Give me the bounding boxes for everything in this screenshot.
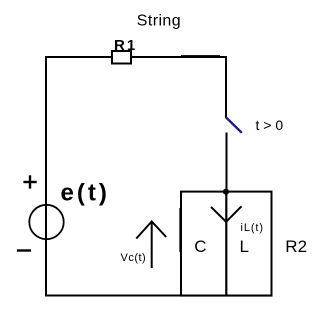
svg-text:C: C (194, 237, 206, 256)
wire top-left horizontal (45, 56, 113, 58)
svg-text:iL(t): iL(t) (241, 222, 264, 234)
resistor R1 (112, 51, 131, 64)
label + (23, 181, 36, 183)
wire overlap segment (thicker run on top wire) (181, 55, 220, 57)
wire switch upper vertical (225, 56, 227, 118)
svg-text:L: L (240, 237, 249, 256)
arrow Vc(t) (151, 222, 153, 268)
svg-text:Vc(t): Vc(t) (121, 252, 147, 264)
arrow iL(t) (211, 206, 242, 222)
wire top-right horizontal (131, 56, 227, 58)
svg-text:e(t): e(t) (61, 180, 110, 207)
switch blade t>0 (226, 117, 242, 133)
wire middle vertical (C|L divider) (225, 192, 227, 296)
box R2 (181, 192, 272, 296)
node junction dot (223, 189, 229, 195)
svg-text:R2: R2 (285, 237, 307, 256)
wire left vertical (45, 56, 47, 296)
svg-text:String: String (137, 13, 181, 30)
wire switch lower vertical (226, 133, 228, 193)
wire overlap segment (thicker run on box left edge) (179, 208, 181, 252)
voltage source e(t) (29, 205, 63, 239)
svg-text:R1: R1 (114, 37, 137, 54)
svg-text:t > 0: t > 0 (256, 117, 284, 133)
label minus (17, 249, 31, 251)
wire bottom horizontal (45, 295, 272, 297)
